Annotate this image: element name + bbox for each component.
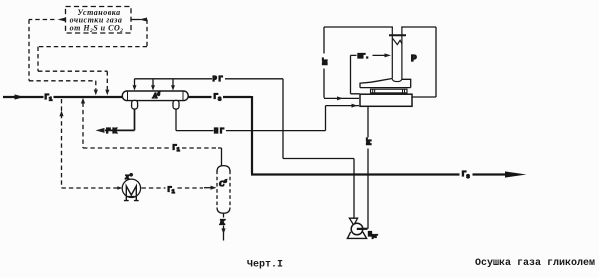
svg-text:Осушка газа гликолем: Осушка газа гликолем: [475, 258, 595, 269]
wire regenerator package loop (vapour line): [324, 27, 436, 98]
arrow into reboiler (upper): [337, 96, 343, 100]
arrow into column: [385, 53, 392, 57]
pump НРГ: [356, 228, 368, 230]
svg-text:ВГ: ВГ: [322, 57, 329, 65]
arrow into reboiler (lower): [352, 104, 358, 108]
svg-text:ГК: ГК: [106, 128, 119, 136]
dashed box: gas purification unit: [66, 7, 132, 34]
wire condensate drain with K label: [223, 213, 225, 240]
wire RG supply: down, right, down to pump discharge path: [283, 79, 354, 218]
svg-text:Г1: Г1: [168, 187, 175, 196]
svg-text:Р: Р: [411, 53, 417, 64]
arrow out of box (left): [58, 18, 66, 22]
wire dashed: feed down from main line to cooler: [62, 99, 122, 188]
reboiler vessel: [360, 94, 412, 106]
arrow up on feed line: [59, 111, 63, 117]
svg-text:НГ.: НГ.: [358, 53, 370, 60]
wire dashed upper line continue to separator top: [182, 147, 218, 149]
regenerator column P pipe: [393, 26, 401, 81]
pipe into shoe curve: [392, 79, 402, 82]
absorber bottom nozzles: [132, 100, 138, 109]
tray plate with legs: [371, 89, 408, 93]
column flange: [389, 34, 406, 36]
wire NG saturated glycol from absorber to reboiler: [176, 106, 359, 131]
svg-text:К: К: [219, 218, 226, 227]
wire RG header above absorber with three drop arrows: [135, 78, 284, 80]
wire dashed: purified gas out of box to left, down and into main line: [29, 20, 96, 90]
arrow on main line: [15, 94, 25, 99]
absorber A vessel (horizontal capsule): [122, 91, 188, 101]
cooler X (circle with M): [122, 179, 140, 197]
wire dashed: cooler to separator: [142, 187, 204, 189]
svg-text:Нрг: Нрг: [368, 231, 378, 240]
wire dashed: bypass return riser from separator loop to main line: [83, 103, 171, 149]
svg-text:НГ: НГ: [214, 128, 226, 136]
cooler M zigzag: [124, 186, 139, 201]
svg-text:от Н2S и СО2: от Н2S и СО2: [70, 24, 124, 34]
column break symbol W: [393, 38, 402, 44]
arrow into main line (right riser): [105, 90, 109, 96]
shoe / vapour duct atop reboiler: [360, 79, 411, 88]
svg-text:Г3: Г3: [462, 171, 471, 180]
wire solid corner into separator top: [218, 148, 222, 166]
wire absorber outlet Г3 (thick) to right then down to bottom line: [188, 96, 506, 175]
wire solid stub box right: [132, 19, 141, 21]
svg-text:РГ: РГ: [366, 137, 373, 145]
svg-text:Сб: Сб: [219, 179, 227, 188]
wire GK condensate drain from absorber (bold): [105, 109, 135, 130]
svg-text:Г3: Г3: [214, 94, 223, 103]
wire main gas line Г1 (thick): [3, 96, 123, 98]
arrow up into main line: [81, 98, 85, 104]
separator C vessel (dashed walls capsule): [217, 166, 230, 172]
svg-text:Г1: Г1: [173, 145, 180, 154]
arrow dried gas out: [505, 171, 527, 177]
svg-text:Черт.I: Черт.I: [247, 260, 283, 271]
arrow into main line (left riser): [94, 90, 98, 96]
svg-text:РГ: РГ: [213, 76, 225, 84]
wire solid with arrow into separator: [204, 187, 211, 189]
wire NG feed up to column with label: [351, 55, 386, 93]
svg-text:Г1: Г1: [45, 94, 54, 103]
svg-text:х°: х°: [124, 172, 133, 181]
arrow down condensate: [221, 228, 225, 234]
wire dashed: raw gas branch into box right side: [38, 20, 147, 90]
wire RG out of reboiler down to pump (with rotated label): [367, 106, 369, 229]
arrow into box (right side): [139, 18, 147, 22]
